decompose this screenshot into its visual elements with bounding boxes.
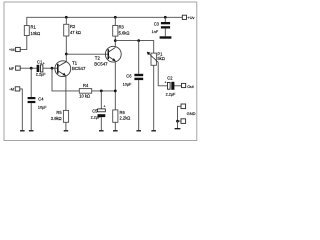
wire rail to C3 [164, 17, 166, 22]
svg-text:47 kΩ: 47 kΩ [70, 30, 81, 35]
ground -M [20, 130, 25, 132]
junction dot C6 [137, 39, 140, 42]
transistor T2 [94, 46, 121, 66]
svg-text:BC547: BC547 [94, 62, 108, 67]
terminal +M [9, 47, 20, 52]
resistor R1 [24, 25, 40, 36]
wire R3 bottom [114, 36, 116, 41]
ground C6 [136, 130, 141, 132]
svg-text:-M: -M [9, 87, 14, 92]
resistor R2 [64, 24, 81, 36]
svg-text:R5: R5 [56, 110, 62, 115]
ground R6 [113, 130, 118, 132]
wire T2 emitter down to R6 [114, 61, 116, 110]
wire R6 to ground [114, 122, 116, 130]
junction dot T1 base [51, 67, 54, 70]
wire C6 to ground [138, 80, 140, 130]
transistor T1 [55, 60, 86, 76]
wire top supply rail [27, 17, 183, 25]
wire C3 to ground bar [164, 29, 166, 37]
svg-text:2.2µF: 2.2µF [36, 72, 46, 76]
capacitor C6 [123, 73, 144, 86]
ground GND [175, 128, 181, 130]
svg-text:C4: C4 [38, 96, 44, 101]
svg-text:+M: +M [9, 47, 15, 52]
capacitor C2 [165, 75, 177, 96]
svg-text:2.2µF: 2.2µF [166, 92, 176, 96]
svg-text:BC547: BC547 [72, 66, 86, 71]
capacitor C3 [152, 21, 170, 34]
svg-text:C2: C2 [167, 75, 173, 80]
wire -M to ground [20, 89, 23, 130]
wire T1 emitter to R5 [65, 76, 67, 111]
svg-text:1nF: 1nF [152, 30, 159, 34]
capacitor C4 [28, 96, 48, 109]
svg-text:2.2kΩ: 2.2kΩ [120, 116, 131, 121]
svg-text:C5: C5 [92, 108, 98, 113]
capacitor C1 [36, 60, 46, 77]
ground C4 [29, 130, 34, 132]
terminal GND upper [181, 104, 186, 109]
wire C4 to ground [30, 103, 32, 130]
border frame [4, 2, 197, 141]
svg-text:+: + [165, 80, 167, 84]
resistor R4 [79, 83, 92, 99]
svg-text:R1: R1 [31, 25, 37, 30]
svg-text:+: + [43, 62, 45, 66]
wire P1 bottom to ground [153, 65, 155, 130]
wire rail to R3 [114, 17, 116, 25]
wire C2 to Out [174, 85, 181, 87]
ground C5 [99, 130, 104, 132]
wire R5 to ground [65, 122, 67, 130]
svg-text:3.9kΩ: 3.9kΩ [51, 116, 62, 121]
terminal NF [9, 66, 21, 71]
svg-text:C3: C3 [154, 21, 160, 26]
svg-text:10µF: 10µF [123, 83, 132, 87]
capacitor C5 [91, 104, 106, 119]
junction dot T1 collector node [65, 53, 68, 56]
wire GND to ground [177, 121, 179, 128]
ground P1 [151, 130, 156, 132]
wire GND terminals [178, 106, 182, 121]
junction dot GND [176, 120, 179, 123]
wire T2 collector up [114, 41, 116, 48]
terminal Out [182, 83, 195, 89]
junction dot T2 emitter / R4 [114, 90, 117, 93]
svg-text:+Uv: +Uv [187, 15, 194, 20]
junction dot NF/C4 [30, 67, 33, 70]
ground C3 [160, 36, 172, 38]
terminal GND lower [181, 119, 186, 124]
wire R2 to T1 collector [65, 36, 67, 62]
svg-text:T1: T1 [72, 60, 78, 65]
wire T1 collector node to T2 base [66, 53, 108, 55]
resistor R5 [51, 110, 69, 122]
wire NF node to C4 [30, 68, 32, 97]
resistor R6 [113, 110, 131, 122]
svg-text:NF: NF [9, 66, 15, 71]
junction dot T2 collector node [114, 39, 117, 42]
svg-text:Out: Out [187, 84, 194, 89]
wire C5 to ground [100, 117, 102, 130]
wire C5 top [100, 91, 102, 109]
svg-text:R6: R6 [120, 110, 126, 115]
wire collector node to P1 [115, 41, 153, 54]
junction dot C5 [100, 90, 103, 93]
resistor R3 [113, 25, 130, 36]
junction dot C3 top rail [164, 16, 167, 19]
potentiometer P1 [147, 51, 165, 65]
svg-text:2.2µF: 2.2µF [91, 115, 101, 119]
wire R1 bottom to +M [21, 36, 27, 50]
wire NF to C1 [21, 67, 37, 69]
svg-text:R4: R4 [83, 83, 89, 88]
ground R5 [64, 130, 68, 132]
junction dot R2 top [65, 16, 68, 19]
wire T1 base feedback down [52, 68, 79, 91]
terminal -M [9, 87, 19, 92]
wire R4 to T2 emitter node [92, 90, 116, 92]
svg-text:5kΩ: 5kΩ [157, 56, 164, 61]
svg-text:10 kΩ: 10 kΩ [79, 93, 90, 98]
svg-text:R2: R2 [70, 24, 76, 29]
svg-text:R3: R3 [119, 25, 125, 30]
svg-text:C6: C6 [126, 73, 132, 78]
svg-text:+: + [104, 104, 106, 108]
wire C6 top [138, 41, 140, 74]
svg-text:T2: T2 [95, 56, 101, 61]
wire P1 wiper to C2 [158, 62, 167, 86]
svg-text:10µF: 10µF [38, 106, 47, 110]
terminal +Uv [182, 15, 194, 20]
svg-text:5.6kΩ: 5.6kΩ [119, 31, 130, 36]
wire C1 to T1 base [43, 67, 58, 69]
wire rail to R2 [65, 17, 67, 24]
junction dot R3 top rail [114, 16, 117, 19]
svg-text:10kΩ: 10kΩ [31, 31, 41, 36]
svg-text:GND: GND [187, 111, 196, 116]
